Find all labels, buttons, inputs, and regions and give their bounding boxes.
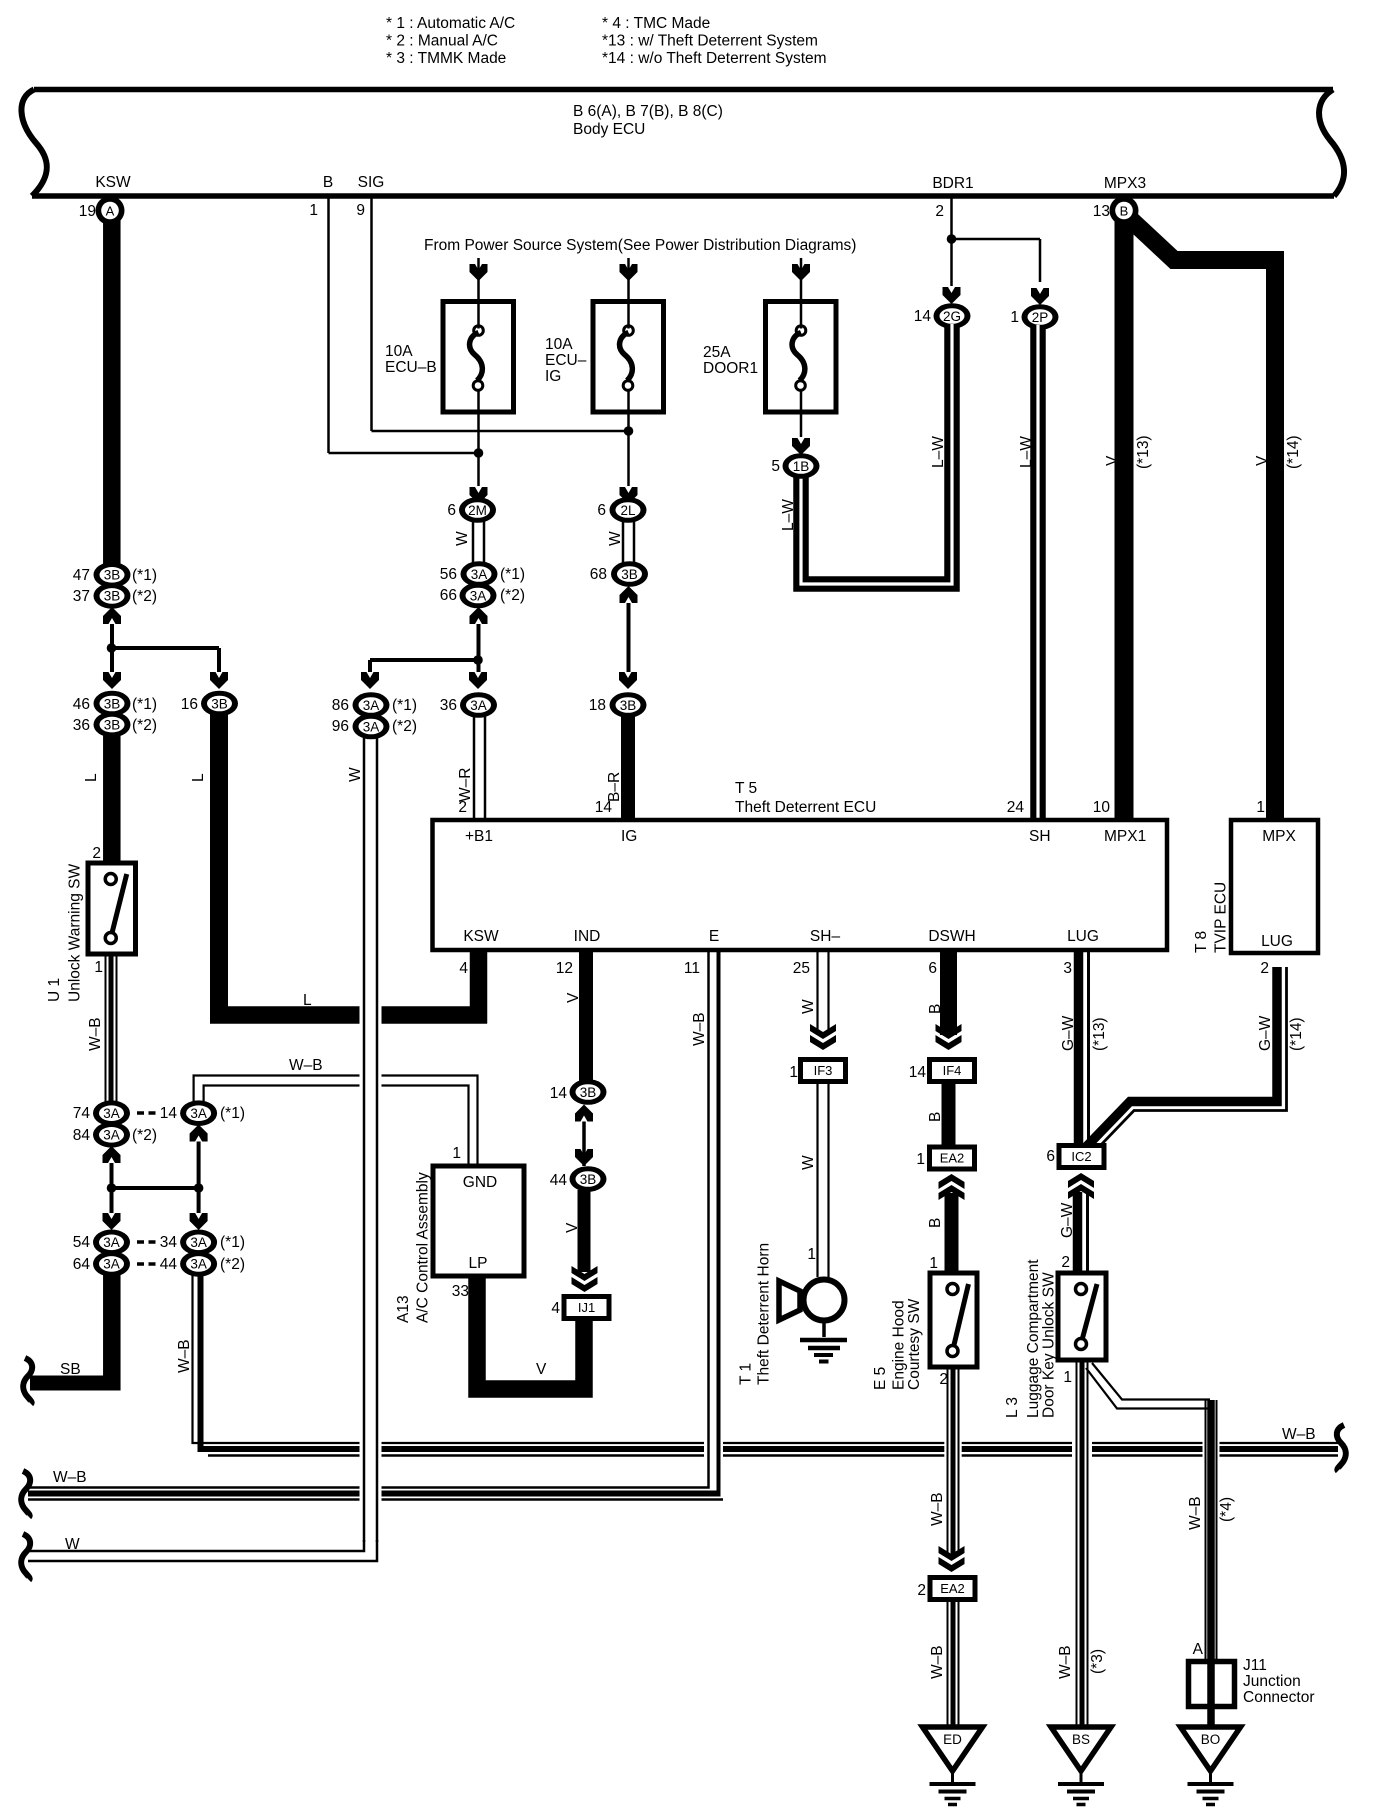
wire W from T5 SH- xyxy=(816,950,818,1035)
svg-text:EA2: EA2 xyxy=(940,1151,965,1166)
wire W-B EA2 to ED ground xyxy=(947,1602,949,1727)
wire branch to 2P xyxy=(952,238,1041,241)
junction dot BDR1 xyxy=(947,234,957,244)
connector oval 3A 64 xyxy=(93,1251,130,1277)
fuse 10A ECU-IG xyxy=(593,302,664,413)
arrow down into 3A 36 xyxy=(469,672,487,689)
ground BS xyxy=(1051,1727,1111,1771)
svg-text:12: 12 xyxy=(556,960,573,977)
junction box EA2 xyxy=(927,1145,977,1172)
svg-text:(*4): (*4) xyxy=(1218,1497,1235,1522)
svg-text:1: 1 xyxy=(929,1255,938,1272)
svg-text:B 6(A), B 7(B), B 8(C): B 6(A), B 7(B), B 8(C) xyxy=(573,103,723,120)
svg-text:E 5: E 5 xyxy=(872,1367,889,1390)
svg-text:KSW: KSW xyxy=(463,928,499,945)
switch L3 luggage door key unlock xyxy=(1058,1273,1106,1360)
svg-text:3: 3 xyxy=(1063,960,1072,977)
svg-text:74: 74 xyxy=(73,1105,91,1122)
svg-text:3B: 3B xyxy=(621,567,638,582)
svg-text:1: 1 xyxy=(789,1064,798,1081)
svg-text:54: 54 xyxy=(73,1234,91,1251)
svg-text:SH: SH xyxy=(1029,828,1051,845)
svg-text:11: 11 xyxy=(684,960,700,977)
svg-text:3A: 3A xyxy=(363,719,380,734)
svg-text:(*1): (*1) xyxy=(500,566,525,583)
svg-text:3B: 3B xyxy=(580,1085,597,1100)
bus W-B lower xyxy=(28,1486,710,1489)
svg-text:56: 56 xyxy=(440,566,457,583)
wire branch to 3A 86 xyxy=(370,658,478,662)
connector oval 3A 56 xyxy=(461,561,498,587)
svg-text:IF3: IF3 xyxy=(814,1063,833,1078)
svg-text:6: 6 xyxy=(1046,1148,1055,1165)
wire DOOR1 fuse to 1B xyxy=(800,412,803,437)
junction dot left L branch xyxy=(107,643,117,653)
svg-text:BS: BS xyxy=(1072,1732,1090,1747)
junction dot at ECU-IG wire xyxy=(624,426,634,436)
break symbol at W wire xyxy=(21,1534,30,1580)
svg-text:(*1): (*1) xyxy=(132,696,157,713)
svg-text:SIG: SIG xyxy=(358,174,385,191)
connector oval 2M xyxy=(459,497,496,523)
svg-text:B–R: B–R xyxy=(606,772,623,802)
svg-text:A: A xyxy=(106,203,115,218)
connector oval 3B 36 left xyxy=(94,712,131,738)
break symbol at bus right xyxy=(1337,1425,1346,1471)
double chevron up from IC2 xyxy=(1068,1184,1094,1199)
svg-text:25: 25 xyxy=(793,960,810,977)
svg-text:10A: 10A xyxy=(385,343,413,360)
svg-text:IG: IG xyxy=(621,828,637,845)
wire W vertical over L and GND loop xyxy=(360,995,382,1100)
svg-text:* 1 : Automatic A/C: * 1 : Automatic A/C xyxy=(386,15,515,32)
dashes 64-44 xyxy=(137,1262,144,1266)
junction dot at ECU-B wire xyxy=(474,448,484,458)
svg-text:3B: 3B xyxy=(620,698,637,713)
connector oval 2G xyxy=(934,303,971,329)
svg-text:BO: BO xyxy=(1201,1732,1221,1747)
svg-text:33: 33 xyxy=(452,1283,469,1300)
junction box IF3 xyxy=(798,1057,848,1084)
svg-text:Luggage Compartment: Luggage Compartment xyxy=(1025,1259,1042,1418)
svg-text:W–B: W–B xyxy=(1282,1426,1316,1443)
svg-text:B: B xyxy=(927,1218,944,1228)
svg-text:W–B: W–B xyxy=(289,1057,323,1074)
wire W vertical over buses xyxy=(360,1428,382,1512)
connector oval 3B 46 xyxy=(94,691,131,717)
wire pin SIG to ECU-IG fuse output xyxy=(370,198,373,431)
svg-text:1B: 1B xyxy=(793,459,810,474)
svg-text:L–W: L–W xyxy=(780,499,797,531)
svg-text:Unlock Warning SW: Unlock Warning SW xyxy=(67,864,84,1002)
svg-text:W–B: W–B xyxy=(691,1012,708,1046)
wire V from T5 IND xyxy=(579,950,593,1081)
connector oval 3A 34 xyxy=(180,1230,217,1256)
svg-text:3A: 3A xyxy=(103,1235,120,1250)
svg-text:From Power Source System(See P: From Power Source System(See Power Distr… xyxy=(424,237,856,254)
wire W-R from 3A 36 to T5 +B1 xyxy=(473,717,476,821)
connector oval 3A 84 xyxy=(93,1122,130,1148)
svg-text:W: W xyxy=(607,531,624,546)
svg-text:10A: 10A xyxy=(545,336,573,353)
svg-text:G–W: G–W xyxy=(1059,1202,1076,1238)
svg-text:IG: IG xyxy=(545,368,561,385)
svg-text:MPX3: MPX3 xyxy=(1104,175,1146,192)
svg-text:T 8: T 8 xyxy=(1193,931,1210,953)
svg-text:36: 36 xyxy=(73,717,90,734)
svg-text:9: 9 xyxy=(356,202,365,219)
svg-text:B: B xyxy=(927,1004,944,1014)
svg-text:B: B xyxy=(927,1112,944,1122)
svg-text:T 5: T 5 xyxy=(735,780,757,797)
connector circle B xyxy=(1110,196,1139,225)
svg-text:46: 46 xyxy=(73,696,90,713)
svg-text:EA2: EA2 xyxy=(940,1581,965,1596)
svg-text:3A: 3A xyxy=(470,698,487,713)
svg-text:Door Key Unlock SW: Door Key Unlock SW xyxy=(1041,1272,1058,1418)
svg-text:2: 2 xyxy=(917,1582,926,1599)
svg-text:T 1: T 1 xyxy=(738,1363,755,1385)
svg-text:3B: 3B xyxy=(104,568,121,583)
wire W-B from 3A 44 to bus xyxy=(193,1275,1339,1443)
svg-text:W: W xyxy=(65,1536,80,1553)
svg-text:47: 47 xyxy=(73,567,90,584)
svg-text:3A: 3A xyxy=(470,588,487,603)
svg-text:Junction: Junction xyxy=(1243,1673,1301,1690)
svg-text:IF4: IF4 xyxy=(943,1063,962,1078)
svg-text:1: 1 xyxy=(1256,799,1265,816)
junction box IF4 xyxy=(927,1057,977,1084)
wire L from T5 KSW xyxy=(470,950,488,1024)
svg-text:(*14): (*14) xyxy=(1285,435,1302,469)
svg-text:W–B: W–B xyxy=(53,1469,87,1486)
svg-text:2P: 2P xyxy=(1032,310,1049,325)
wire L from circle A xyxy=(103,214,121,564)
A/C control assembly box A13 xyxy=(433,1166,524,1276)
svg-text:ECU–: ECU– xyxy=(545,352,587,369)
svg-text:+B1: +B1 xyxy=(465,828,493,845)
svg-text:3B: 3B xyxy=(104,717,121,732)
switch U1 unlock warning xyxy=(88,863,136,954)
break symbol at SB wire xyxy=(23,1358,32,1404)
svg-text:*13 : w/ Theft Deterrent Syste: *13 : w/ Theft Deterrent System xyxy=(602,33,818,50)
svg-text:E: E xyxy=(709,928,719,945)
svg-text:LUG: LUG xyxy=(1261,933,1293,950)
svg-text:Body ECU: Body ECU xyxy=(573,121,645,138)
svg-text:TVIP ECU: TVIP ECU xyxy=(1213,882,1230,953)
junction dot 14 column xyxy=(194,1183,204,1193)
switch E5 engine hood courtesy xyxy=(930,1273,977,1367)
svg-text:(*2): (*2) xyxy=(132,588,157,605)
wire J11 to BO ground xyxy=(1207,1707,1215,1727)
svg-text:GND: GND xyxy=(463,1174,497,1191)
svg-text:(*1): (*1) xyxy=(392,697,417,714)
connector oval 3B 14 xyxy=(570,1079,607,1105)
wire W down from 3A 96 xyxy=(363,738,366,1542)
connector oval 3B 16 xyxy=(201,691,238,717)
ECU T8 TVIP box xyxy=(1231,820,1318,953)
wire W-B from T5 E xyxy=(707,950,710,1487)
wire G-W from T5 LUG xyxy=(1074,950,1084,1143)
svg-text:14: 14 xyxy=(909,1064,927,1081)
svg-text:(*13): (*13) xyxy=(1091,1017,1108,1051)
svg-text:86: 86 xyxy=(332,697,349,714)
svg-text:IJ1: IJ1 xyxy=(578,1300,595,1315)
dashes 74-14 xyxy=(137,1111,144,1115)
svg-text:J11: J11 xyxy=(1243,1657,1267,1674)
arrow up into 3A 14 xyxy=(190,1125,208,1142)
svg-text:V: V xyxy=(565,992,582,1003)
svg-text:1: 1 xyxy=(1063,1369,1072,1386)
arrow up into 3B 14 xyxy=(575,1105,593,1122)
arrow down into 3B 18 xyxy=(619,672,637,689)
wire B-R from 3B 18 to T5 IG xyxy=(621,717,635,821)
arrow into 2P xyxy=(1031,288,1049,305)
svg-text:LP: LP xyxy=(469,1255,488,1272)
Body ECU band bottom edge xyxy=(32,193,1334,199)
junction box IC2 xyxy=(1057,1143,1107,1170)
wire pin B to ECU-B fuse output xyxy=(327,198,330,453)
svg-text:G–W: G–W xyxy=(1257,1015,1274,1051)
svg-text:1: 1 xyxy=(916,1151,925,1168)
svg-text:3A: 3A xyxy=(363,698,380,713)
svg-text:L 3: L 3 xyxy=(1004,1397,1021,1418)
bus W-B upper xyxy=(208,1454,1338,1457)
svg-text:(*3): (*3) xyxy=(1089,1649,1106,1674)
svg-text:14: 14 xyxy=(595,799,613,816)
wire B IF4 to EA2 xyxy=(942,1084,956,1145)
svg-text:(*2): (*2) xyxy=(220,1256,245,1273)
svg-text:W: W xyxy=(800,1155,817,1170)
svg-text:DSWH: DSWH xyxy=(928,928,975,945)
svg-text:Engine Hood: Engine Hood xyxy=(891,1300,908,1390)
ECU T5 box xyxy=(433,820,1168,950)
svg-text:DOOR1: DOOR1 xyxy=(703,360,758,377)
svg-text:G–W: G–W xyxy=(1060,1015,1077,1051)
svg-text:3A: 3A xyxy=(190,1235,207,1250)
wire V from 3B 44 to IJ1 xyxy=(578,1190,591,1272)
svg-text:V: V xyxy=(1104,455,1121,466)
wire L to unlock warning switch xyxy=(103,735,121,863)
svg-text:16: 16 xyxy=(181,696,198,713)
svg-text:25A: 25A xyxy=(703,344,731,361)
wire W-B loop from 3A 14 to GND xyxy=(194,1076,478,1167)
svg-text:3A: 3A xyxy=(103,1257,120,1272)
svg-text:Courtesy SW: Courtesy SW xyxy=(906,1298,923,1390)
svg-text:KSW: KSW xyxy=(95,174,131,191)
double chevron into IF3 xyxy=(810,1024,836,1039)
svg-text:L–W: L–W xyxy=(1018,436,1035,468)
wire G-W IC2 to L3 xyxy=(1073,1192,1083,1273)
wire G-W from TVIP LUG xyxy=(1086,967,1277,1147)
svg-text:4: 4 xyxy=(459,960,468,977)
junction dot 74 column xyxy=(107,1183,117,1193)
fuse 25A DOOR1 xyxy=(766,302,837,413)
svg-text:1: 1 xyxy=(309,202,318,219)
svg-text:MPX: MPX xyxy=(1262,828,1296,845)
svg-text:BDR1: BDR1 xyxy=(932,175,973,192)
svg-text:3B: 3B xyxy=(211,696,228,711)
wire MPX3 to TVIP MPX (V *14) xyxy=(1129,218,1275,820)
wire W-B from L3 to BS ground xyxy=(1076,1360,1078,1727)
connector oval 2L xyxy=(610,497,647,523)
wire W bottom xyxy=(28,1540,364,1551)
wire W-B J11 vertical over bus xyxy=(1203,1428,1220,1472)
svg-text:* 3 : TMMK Made: * 3 : TMMK Made xyxy=(386,50,506,67)
svg-text:66: 66 xyxy=(440,587,457,604)
svg-text:(*2): (*2) xyxy=(132,1127,157,1144)
wire ECU-B fuse to 2M xyxy=(477,412,480,486)
svg-text:18: 18 xyxy=(589,697,606,714)
Body ECU band right wavy edge xyxy=(1319,90,1344,197)
svg-text:W–B: W–B xyxy=(1057,1645,1074,1679)
wire ECU-IG fuse to 2L xyxy=(627,412,630,486)
arrow down into 3B 46 xyxy=(103,672,121,689)
wire branch to 3B 16 xyxy=(112,646,220,650)
svg-text:2: 2 xyxy=(935,203,944,220)
svg-text:36: 36 xyxy=(440,697,457,714)
svg-text:(*1): (*1) xyxy=(220,1105,245,1122)
svg-text:10: 10 xyxy=(1093,799,1111,816)
svg-text:3A: 3A xyxy=(471,567,488,582)
svg-text:Theft Deterrent Horn: Theft Deterrent Horn xyxy=(756,1243,773,1385)
connector oval 3A 86 xyxy=(353,692,390,718)
svg-text:5: 5 xyxy=(771,458,780,475)
wire 1B to 2G L-W loop xyxy=(801,324,952,584)
svg-text:ECU–B: ECU–B xyxy=(385,359,437,376)
svg-text:MPX1: MPX1 xyxy=(1104,828,1146,845)
svg-text:3B: 3B xyxy=(580,1172,597,1187)
wire W-B from U1 to 3A 74 xyxy=(105,954,107,1102)
connector oval 3B 47 xyxy=(94,562,131,588)
junction box EA2 2 xyxy=(928,1575,978,1602)
svg-text:W–B: W–B xyxy=(1187,1496,1204,1530)
arrow down into 3A 34 xyxy=(190,1213,208,1230)
arrow into DOOR1 fuse xyxy=(800,258,803,301)
svg-text:Theft Deterrent ECU: Theft Deterrent ECU xyxy=(735,799,876,816)
svg-text:IND: IND xyxy=(574,928,601,945)
svg-text:37: 37 xyxy=(73,588,90,605)
svg-text:L: L xyxy=(83,773,100,782)
wire SB from 3A 64 xyxy=(103,1275,121,1391)
svg-text:A13: A13 xyxy=(395,1295,412,1323)
wire B EA2 to E5 switch xyxy=(945,1193,959,1273)
svg-text:2: 2 xyxy=(92,845,101,862)
svg-text:1: 1 xyxy=(452,1145,461,1162)
Body ECU band left wavy edge xyxy=(21,90,46,197)
svg-text:(*14): (*14) xyxy=(1288,1017,1305,1051)
svg-text:14: 14 xyxy=(914,308,932,325)
ground ED xyxy=(923,1727,983,1771)
double chevron up from EA2 xyxy=(939,1185,965,1200)
connector oval 1B xyxy=(783,453,820,479)
svg-text:ED: ED xyxy=(943,1732,962,1747)
connector oval 3A 74 xyxy=(93,1100,130,1126)
junction dot at W-R branch xyxy=(473,655,483,665)
svg-text:1: 1 xyxy=(807,1246,816,1263)
junction box IJ1 xyxy=(562,1294,612,1321)
svg-text:(*2): (*2) xyxy=(500,587,525,604)
arrow down into 3A 54 xyxy=(103,1213,121,1230)
svg-text:(*2): (*2) xyxy=(132,717,157,734)
svg-text:W–B: W–B xyxy=(929,1645,946,1679)
svg-text:6: 6 xyxy=(447,502,456,519)
svg-text:3B: 3B xyxy=(104,589,121,604)
wire BDR1 to 2G arrow xyxy=(950,239,953,286)
svg-text:44: 44 xyxy=(160,1256,178,1273)
svg-text:SH–: SH– xyxy=(810,928,841,945)
connector oval 3B 18 xyxy=(610,692,647,718)
svg-text:A: A xyxy=(1193,1641,1204,1658)
svg-text:LUG: LUG xyxy=(1067,928,1099,945)
svg-text:(*2): (*2) xyxy=(392,718,417,735)
svg-text:A/C Control Assembly: A/C Control Assembly xyxy=(415,1172,432,1323)
svg-text:13: 13 xyxy=(1093,203,1110,220)
arrow down into 3B 16 xyxy=(210,672,228,689)
svg-text:3A: 3A xyxy=(190,1257,207,1272)
svg-text:*14 : w/o Theft Deterrent Syst: *14 : w/o Theft Deterrent System xyxy=(602,50,827,67)
wire V loop IJ1 to LP xyxy=(477,1276,584,1389)
svg-text:3A: 3A xyxy=(103,1128,120,1143)
svg-text:1: 1 xyxy=(1010,309,1019,326)
double chevron into EA2 2 xyxy=(939,1546,965,1561)
arrow down into 3B 44 xyxy=(575,1149,593,1166)
connector oval 3A 54 xyxy=(93,1230,130,1256)
svg-text:4: 4 xyxy=(551,1300,560,1317)
svg-text:14: 14 xyxy=(550,1085,568,1102)
svg-text:(*13): (*13) xyxy=(1135,435,1152,469)
svg-text:(*1): (*1) xyxy=(220,1234,245,1251)
wire W-B L3 vertical over bus xyxy=(1072,1428,1092,1472)
svg-text:2M: 2M xyxy=(468,503,487,518)
svg-text:96: 96 xyxy=(332,718,349,735)
svg-text:2: 2 xyxy=(1260,960,1269,977)
Body ECU band top edge xyxy=(34,87,1333,93)
svg-text:1: 1 xyxy=(94,959,103,976)
svg-text:W: W xyxy=(454,531,471,546)
svg-text:L: L xyxy=(303,992,312,1009)
svg-text:W: W xyxy=(800,999,817,1014)
svg-text:3B: 3B xyxy=(104,696,121,711)
svg-text:44: 44 xyxy=(550,1172,568,1189)
svg-text:34: 34 xyxy=(160,1234,178,1251)
connector oval 3A 66 xyxy=(460,583,497,609)
svg-text:6: 6 xyxy=(597,502,606,519)
arrow up into 3A 84 xyxy=(103,1146,121,1163)
theft deterrent horn T1 xyxy=(804,1280,845,1321)
horn ground xyxy=(822,1321,826,1337)
wire W-B diagonal L3 to J11 xyxy=(1092,1363,1210,1400)
wire W from IF3 to horn xyxy=(816,1084,818,1277)
svg-text:U 1: U 1 xyxy=(46,978,63,1002)
svg-text:SB: SB xyxy=(60,1361,81,1378)
arrow up into 3B 37 xyxy=(103,607,121,624)
wire W 2M to 3A xyxy=(472,521,475,563)
wire BDR1 pin 2 down xyxy=(950,198,953,239)
svg-text:W–B: W–B xyxy=(87,1017,104,1051)
svg-text:2: 2 xyxy=(458,799,467,816)
connector oval 3A 96 xyxy=(353,714,390,740)
break symbol at bus left xyxy=(21,1471,30,1517)
fuse 10A ECU-B xyxy=(443,302,514,413)
connector oval 3B 44 xyxy=(570,1166,607,1192)
svg-text:V: V xyxy=(564,1222,581,1233)
svg-text:V: V xyxy=(1254,455,1271,466)
svg-text:V: V xyxy=(536,1361,547,1378)
svg-text:3A: 3A xyxy=(190,1106,207,1121)
wire W-B E vertical over bus xyxy=(704,1428,723,1472)
connector circle A xyxy=(96,196,125,225)
